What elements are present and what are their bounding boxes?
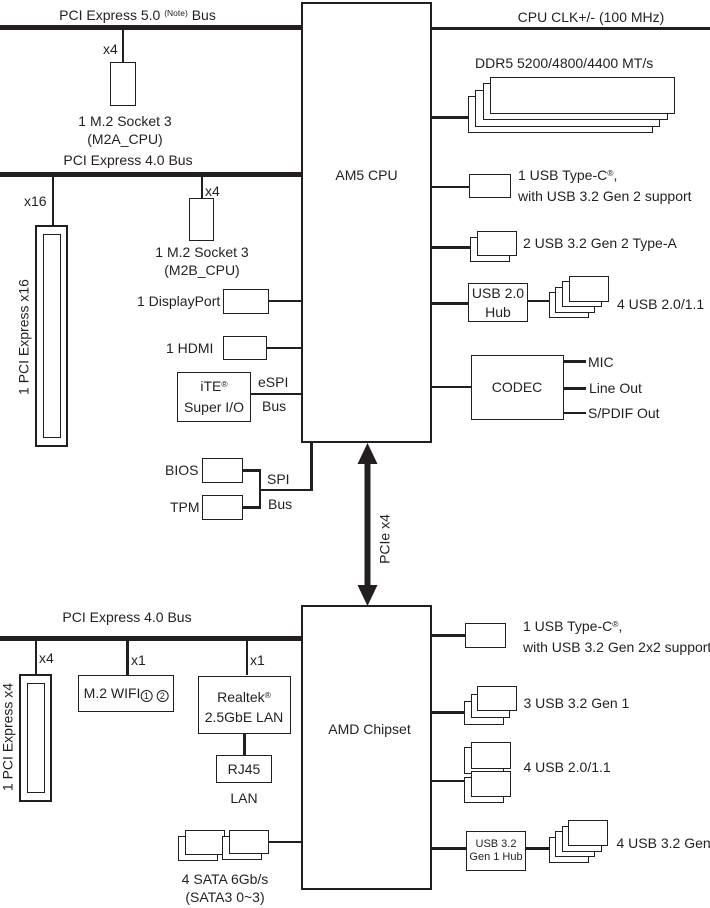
wire hub32 to stack xyxy=(526,847,550,850)
box DisplayPort xyxy=(223,289,269,314)
label x4 (slot) xyxy=(39,649,54,668)
box USB2 stack 3 xyxy=(555,287,595,313)
box HDMI xyxy=(223,336,267,360)
box RJ45 xyxy=(216,755,272,783)
label 4 USB 2.0/1.1 (chipset) xyxy=(524,758,611,777)
wire CPU to CODEC xyxy=(432,386,471,389)
box USB20 top back xyxy=(464,747,504,774)
box Realtek 2.5GbE LAN xyxy=(198,676,291,734)
wire x16 drop xyxy=(52,177,55,225)
box USB32 stack 2 xyxy=(562,826,602,852)
box SATA pair1 front xyxy=(185,830,225,855)
label BIOS xyxy=(165,461,198,480)
label iTE Super I/O xyxy=(184,377,244,417)
slot PCI Express x16 inner xyxy=(43,234,61,438)
box USB20 top front xyxy=(471,742,511,769)
box TPM xyxy=(202,495,243,520)
chipset box AMD xyxy=(301,605,432,890)
label DDR5 xyxy=(475,54,653,73)
wire eSPI xyxy=(251,393,302,396)
box 3USB stack 2 xyxy=(471,694,511,719)
box USB32 stack 4 xyxy=(549,837,589,863)
wire 4 USB 2.0 (chipset) xyxy=(432,780,465,783)
box USB Type-C (chipset) xyxy=(465,623,506,648)
box M.2 Socket 3 (M2B_CPU) xyxy=(189,198,214,241)
wire x1 drop (WIFI) xyxy=(126,641,129,675)
box 3USB stack 1 xyxy=(477,686,517,711)
wire SPI riser to CPU xyxy=(310,443,313,491)
label 2 USB 3.2 Gen 2 Type-A xyxy=(523,234,677,253)
label AM5 CPU xyxy=(335,166,397,185)
box USB32 stack 3 xyxy=(555,831,595,857)
box M.2 WIFI xyxy=(78,675,174,712)
label USB 2.0 Hub xyxy=(472,284,524,321)
wire 2 USB 3.2 Gen 2 xyxy=(432,246,470,249)
slot PCI Express x4 outer xyxy=(19,674,52,802)
box 3USB stack 3 xyxy=(464,701,504,726)
label 1 PCI Express x16 (rotated) xyxy=(15,279,34,395)
label Line Out xyxy=(589,379,642,398)
box SATA pair1 back xyxy=(178,836,218,861)
label x4 (M2B) xyxy=(205,182,220,201)
label CODEC xyxy=(492,378,543,397)
wire x1 drop (LAN) xyxy=(246,641,249,675)
label CPU CLK xyxy=(518,8,665,27)
box CODEC xyxy=(471,355,564,420)
box USB32 stack 1 xyxy=(568,820,608,846)
box USB 3.2 Gen2 back xyxy=(470,237,510,262)
label RJ45 xyxy=(228,760,261,779)
box DDR5 stack 3 xyxy=(475,90,660,127)
label 1 PCI Express x4 (rotated) xyxy=(0,683,18,791)
label PCIe x4 (rotated) xyxy=(376,514,395,564)
wire DisplayPort to CPU xyxy=(269,300,302,303)
box DDR5 stack 2 xyxy=(483,83,668,120)
label 4 USB 2.0/1.1 (CPU) xyxy=(617,295,704,314)
label AMD Chipset xyxy=(328,720,410,739)
wire x4 drop (slot) xyxy=(35,641,38,674)
bus PCI Express 4.0 lower label xyxy=(62,608,191,627)
box DDR5 stack 1 xyxy=(490,77,675,114)
label 4 USB 3.2 Gen 1 xyxy=(617,834,710,853)
wire CPU to USB2 hub xyxy=(432,302,468,305)
label x4 (M2A) xyxy=(103,40,118,59)
op CPU box AM5 xyxy=(301,2,432,443)
box USB Type-C (CPU) xyxy=(469,174,511,198)
arrow PCIe x4 (double headed) xyxy=(351,443,384,606)
wire Realtek to RJ45 xyxy=(243,734,246,755)
wire SPI horizontal xyxy=(259,489,313,492)
wire 3 USB 3.2 Gen 1 xyxy=(432,711,465,714)
wire DDR5 to CPU xyxy=(432,116,468,119)
wire SPDIF stub xyxy=(564,412,586,415)
box USB 2.0 Hub xyxy=(468,283,528,322)
label eSPI Bus xyxy=(262,397,286,416)
box USB20 bottom front xyxy=(471,771,511,797)
box SATA pair2 front xyxy=(229,830,269,854)
wire M2A drop xyxy=(122,30,125,62)
wire hub to USB2 stack xyxy=(528,300,550,303)
box USB 3.2 Gen 1 Hub xyxy=(466,831,526,871)
label M2B caption xyxy=(155,243,248,279)
label M.2 WIFI xyxy=(84,684,169,703)
label USB Type-C (chipset) xyxy=(523,617,710,657)
label M2A caption xyxy=(78,112,171,148)
wire SPI junction vertical xyxy=(259,469,262,509)
label TPM xyxy=(170,498,200,517)
label SATA caption xyxy=(182,870,269,906)
label SPI xyxy=(267,470,290,489)
wire TPM to junction xyxy=(243,506,261,509)
box iTE Super I/O xyxy=(177,372,251,422)
box USB2 stack 2 xyxy=(562,281,602,307)
box USB 3.2 Gen2 front xyxy=(477,231,517,256)
wire BIOS to junction xyxy=(243,469,261,472)
label USB 3.2 Gen 1 Hub xyxy=(469,838,522,864)
wire M2B drop xyxy=(201,177,204,198)
wire HDMI to CPU xyxy=(267,347,302,350)
bus PCI Express 4.0 lower (thick line) xyxy=(0,636,301,641)
wire Line Out stub xyxy=(564,387,586,390)
label Realtek xyxy=(205,688,284,726)
label x1 (WIFI) xyxy=(131,651,146,670)
box M.2 Socket 3 (M2A_CPU) xyxy=(110,62,136,106)
label 1 DisplayPort xyxy=(137,292,220,311)
label eSPI xyxy=(258,373,288,392)
box USB2 stack 1 xyxy=(569,276,609,302)
slot PCI Express x16 outer xyxy=(35,225,68,447)
label USB Type-C (CPU) xyxy=(518,166,692,206)
bus PCI Express 5.0 (thick line) xyxy=(0,25,301,30)
label LAN xyxy=(230,789,257,808)
slot PCI Express x4 inner xyxy=(27,683,45,793)
box DDR5 stack 4 xyxy=(468,96,653,133)
wire USB Type-C (CPU) xyxy=(432,186,469,189)
wire MIC stub xyxy=(564,360,586,363)
wire CPU CLK xyxy=(432,27,710,30)
label S/PDIF Out xyxy=(588,404,660,423)
label SPI Bus xyxy=(268,495,292,514)
bus PCI Express 5.0 label xyxy=(59,6,216,27)
wire SATA to chipset xyxy=(269,841,302,844)
label 3 USB 3.2 Gen 1 xyxy=(524,694,630,713)
box USB2 stack 4 xyxy=(549,292,589,318)
bus PCI Express 4.0 upper (thick line) xyxy=(0,172,301,177)
label x16 xyxy=(24,192,47,211)
wire USB Type-C (chipset) xyxy=(432,634,465,637)
box USB20 bottom back xyxy=(464,777,504,803)
label x1 (LAN) xyxy=(250,651,265,670)
label MIC xyxy=(588,353,614,372)
box SATA pair2 back xyxy=(222,836,262,860)
label 1 HDMI xyxy=(166,339,213,358)
wire chipset to USB32 hub xyxy=(432,847,466,850)
box BIOS xyxy=(202,458,243,483)
bus PCI Express 4.0 upper label xyxy=(63,151,192,170)
